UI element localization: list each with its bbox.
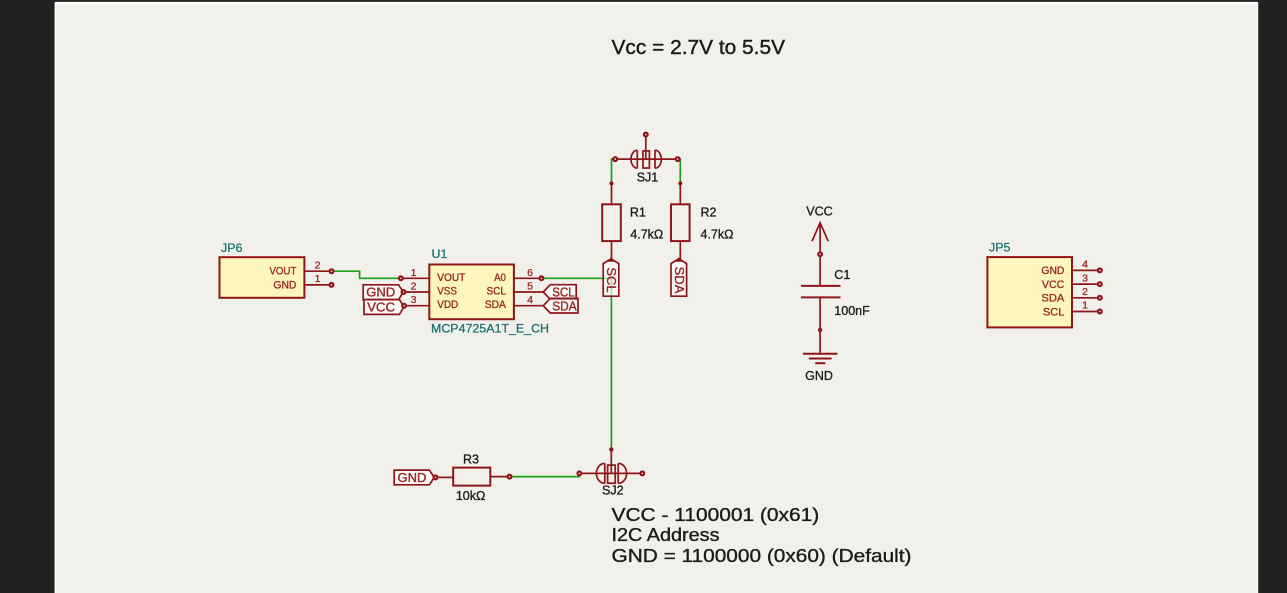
- wire R3 to SJ2: [512, 473, 580, 476]
- svg-text:GND: GND: [398, 470, 427, 485]
- solder jumper SJ2: [578, 447, 645, 483]
- svg-text:Vcc = 2.7V to 5.5V: Vcc = 2.7V to 5.5V: [612, 37, 786, 59]
- svg-text:6: 6: [527, 267, 533, 279]
- junction pin SJ1 left: [613, 157, 617, 161]
- pin dot R1 top: [610, 181, 614, 185]
- svg-text:U1: U1: [432, 247, 448, 261]
- svg-text:GND: GND: [1041, 265, 1064, 277]
- capacitor C1: [801, 286, 841, 353]
- svg-text:SDA: SDA: [1041, 293, 1064, 305]
- svg-text:VOUT: VOUT: [269, 266, 296, 278]
- svg-text:C1: C1: [834, 268, 850, 282]
- svg-text:VDD: VDD: [437, 299, 458, 311]
- svg-text:SCL: SCL: [604, 267, 619, 292]
- svg-text:GND: GND: [273, 279, 296, 291]
- ground symbol GND: [803, 354, 838, 363]
- IC U1: [399, 265, 543, 320]
- supply flag GND (left of U1): [363, 285, 405, 300]
- svg-text:4: 4: [1082, 259, 1088, 271]
- svg-text:JP5: JP5: [989, 240, 1010, 254]
- wire SCL net vertical down to SJ2: [610, 278, 612, 449]
- wire JP6 pin2 to U1 VOUT: [334, 271, 400, 278]
- svg-text:VOUT: VOUT: [437, 272, 465, 284]
- svg-text:SJ1: SJ1: [637, 170, 659, 184]
- svg-text:A0: A0: [494, 272, 506, 284]
- svg-text:R3: R3: [463, 453, 479, 467]
- svg-text:R2: R2: [701, 205, 717, 219]
- supply symbol VCC: [806, 205, 832, 257]
- svg-text:5: 5: [527, 281, 533, 293]
- svg-text:SJ2: SJ2: [602, 484, 624, 498]
- net flag SDA (right of U1): [543, 298, 578, 313]
- svg-text:4.7kΩ: 4.7kΩ: [630, 227, 663, 241]
- svg-text:VCC - 1100001 (0x61): VCC - 1100001 (0x61): [612, 504, 820, 525]
- solder jumper SJ1: [617, 133, 676, 169]
- svg-text:2: 2: [411, 281, 417, 293]
- svg-text:JP6: JP6: [221, 241, 242, 255]
- svg-text:SDA: SDA: [552, 298, 577, 313]
- supply flag VCC (left of U1): [364, 300, 406, 315]
- svg-text:3: 3: [1082, 272, 1088, 284]
- net flag SCL (right of U1): [543, 285, 576, 300]
- svg-text:VCC: VCC: [806, 205, 832, 219]
- svg-text:I2C Address: I2C Address: [612, 524, 720, 545]
- connector JP5: [987, 257, 1101, 327]
- svg-text:2: 2: [1082, 286, 1088, 298]
- svg-text:MCP4725A1T_E_CH: MCP4725A1T_E_CH: [431, 322, 549, 336]
- wire U1 A0 to SCL net: [543, 277, 611, 279]
- pin dot R2 top: [678, 181, 682, 185]
- svg-text:VCC: VCC: [367, 300, 395, 315]
- wire SJ1 left to R1: [612, 159, 616, 183]
- svg-text:SDA: SDA: [672, 267, 687, 294]
- svg-text:1: 1: [411, 267, 417, 279]
- svg-text:VCC: VCC: [1042, 279, 1065, 291]
- svg-text:1: 1: [315, 273, 321, 285]
- net label SDA (vertical flag): [671, 257, 687, 296]
- svg-text:SDA: SDA: [485, 299, 506, 311]
- net label SCL (vertical flag): [603, 257, 619, 296]
- resistor R2: [671, 183, 690, 259]
- resistor R3: [453, 468, 511, 486]
- supply flag GND (R3): [394, 470, 437, 485]
- svg-text:VSS: VSS: [437, 286, 457, 298]
- wire SJ1 right to R2: [678, 159, 681, 183]
- resistor R1: [602, 183, 621, 259]
- svg-text:R1: R1: [630, 205, 646, 219]
- wire GND flag to R3: [438, 476, 454, 478]
- svg-text:1: 1: [1082, 300, 1088, 312]
- svg-text:4.7kΩ: 4.7kΩ: [701, 227, 734, 241]
- svg-text:2: 2: [315, 259, 321, 271]
- note text I2C address: [612, 504, 912, 566]
- svg-text:4: 4: [527, 294, 533, 306]
- wire VCC to C1: [819, 256, 821, 285]
- svg-text:SCL: SCL: [487, 286, 506, 298]
- svg-text:GND: GND: [366, 285, 395, 300]
- junction pin SJ1 right: [676, 157, 680, 161]
- svg-text:10kΩ: 10kΩ: [456, 489, 486, 503]
- connector JP6: [220, 257, 334, 298]
- svg-text:SCL: SCL: [1043, 306, 1065, 318]
- svg-text:3: 3: [411, 294, 417, 306]
- svg-text:GND = 1100000 (0x60) (Default): GND = 1100000 (0x60) (Default): [612, 545, 912, 566]
- svg-text:100nF: 100nF: [834, 304, 870, 318]
- svg-text:GND: GND: [805, 369, 833, 383]
